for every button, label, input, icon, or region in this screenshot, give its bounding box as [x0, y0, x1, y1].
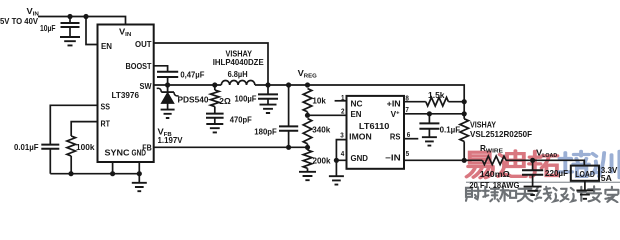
svg-text:SW: SW — [140, 82, 152, 91]
wire input cap to ground — [69, 27, 71, 37]
watermark line2: gray slogan chars — [466, 186, 618, 202]
junction 0.1uF tap — [427, 111, 432, 116]
junction out cap — [265, 82, 270, 87]
junction input cap tap — [67, 14, 72, 19]
wire input rail VIN — [38, 17, 126, 25]
wire FB line — [154, 146, 308, 148]
svg-text:5A: 5A — [601, 174, 612, 183]
ground snubber — [206, 124, 223, 132]
svg-text:EN: EN — [101, 42, 112, 51]
svg-text:LOAD: LOAD — [575, 170, 595, 179]
resistor 2ohm snubber — [211, 90, 220, 107]
capacitor 180pF feedback — [279, 126, 298, 130]
svg-text:0,47µF: 0,47µF — [180, 71, 204, 80]
svg-text:340k: 340k — [312, 125, 330, 134]
capacitor 470pF snubber — [206, 114, 224, 118]
wire out cap to ground — [267, 99, 269, 105]
svg-text:1.5k: 1.5k — [428, 91, 445, 100]
wire 200k to ground — [307, 168, 309, 172]
wire snubber mid lead — [214, 107, 216, 114]
wire RWIRE to load — [506, 160, 584, 165]
wire GND6110 lead — [336, 160, 346, 176]
wire 10k bottom lead — [307, 112, 309, 116]
svg-text:0.1µF: 0.1µF — [440, 126, 461, 135]
junction gnd rail — [137, 171, 142, 176]
wire snubber to ground — [214, 118, 216, 124]
junction diode tap — [165, 82, 170, 87]
ground LT6110 — [329, 176, 344, 184]
svg-text:IHLP4040DZE: IHLP4040DZE — [213, 58, 265, 67]
wire out cap lead — [267, 85, 269, 94]
wire 220uF lead — [532, 160, 534, 170]
svg-text:EN: EN — [351, 110, 362, 119]
wire bottom rail — [50, 173, 139, 175]
svg-text:+IN: +IN — [387, 100, 401, 109]
wire sense bottom lead — [463, 141, 465, 160]
watermark line1: red chars YI DI TUO — [467, 151, 558, 178]
wire GND drop — [138, 162, 140, 183]
capacitor 100uF output — [258, 94, 278, 98]
svg-text:20 FT. 18AWG: 20 FT. 18AWG — [469, 181, 519, 190]
wire SS to cap — [50, 105, 97, 144]
svg-text:RS: RS — [390, 132, 401, 141]
resistor 1.5k — [426, 97, 449, 106]
junction EN tap — [83, 14, 88, 19]
junction 10k tap — [305, 82, 310, 87]
wire IMON lead — [336, 140, 346, 161]
wire load to ground — [584, 181, 586, 191]
capacitor 0.01uF softstart — [41, 145, 59, 149]
wire sense top lead — [463, 102, 465, 119]
wire 0.1uF to ground — [428, 129, 430, 137]
junction 1.5k vreg — [462, 99, 467, 104]
wire 100k to rail — [70, 156, 72, 174]
junction VLOAD — [530, 158, 535, 163]
svg-text:6.8µH: 6.8µH — [228, 70, 248, 79]
watermark line1: blue chars PEI XUN — [559, 151, 619, 177]
wire 220uF to ground — [532, 175, 534, 187]
svg-text:SYNC: SYNC — [105, 149, 130, 158]
wire VREG line — [255, 85, 464, 102]
svg-text:10µF: 10µF — [40, 24, 56, 33]
wire 340k bottom lead — [307, 144, 309, 150]
svg-text:BOOST: BOOST — [126, 62, 152, 71]
svg-text:7: 7 — [405, 105, 409, 114]
svg-text:5: 5 — [406, 149, 410, 158]
junction sync rail — [110, 171, 115, 176]
wire -IN line — [404, 159, 464, 161]
svg-text:FB: FB — [142, 143, 152, 152]
ground 0.1uF — [422, 137, 437, 145]
wire 180pF bottom lead — [288, 131, 290, 148]
resistor 200k — [303, 150, 312, 168]
wire V+ line — [404, 113, 464, 115]
wire RS stub — [404, 138, 418, 140]
junction 100k rail — [68, 171, 73, 176]
wire BOOST lead — [154, 66, 168, 72]
junction sense -IN — [462, 158, 467, 163]
junction 180pF tap — [286, 82, 291, 87]
ground output cap — [260, 105, 277, 113]
svg-text:100µF: 100µF — [235, 95, 257, 104]
resistor 100k RT — [67, 136, 76, 156]
wire SYNC drop — [112, 162, 114, 174]
svg-text:2: 2 — [341, 106, 345, 115]
wire diode to ground — [167, 103, 169, 109]
wire OUT to vreg node — [154, 43, 268, 85]
wire SW line — [154, 84, 222, 86]
svg-text:SS: SS — [101, 103, 111, 112]
svg-text:140mΩ: 140mΩ — [480, 170, 510, 179]
ground diode — [161, 110, 175, 118]
ground divider — [299, 172, 316, 180]
junction divider FB — [305, 145, 310, 150]
svg-text:VISHAY: VISHAY — [470, 120, 496, 129]
ground 220uF — [524, 187, 542, 195]
resistor RWIRE — [482, 156, 506, 165]
svg-text:0.01µF: 0.01µF — [14, 143, 39, 152]
svg-text:470pF: 470pF — [230, 116, 252, 125]
junction snubber tap — [212, 82, 217, 87]
wire NC stub — [335, 100, 347, 102]
wire input cap top lead — [69, 17, 71, 24]
wire RT to resistor — [71, 122, 97, 136]
capacitor 220uF load — [522, 170, 543, 175]
svg-text:VSL2512R0250F: VSL2512R0250F — [470, 130, 532, 139]
wire ss cap to rail — [49, 149, 51, 174]
wire to RWIRE — [464, 159, 482, 161]
ground load — [576, 190, 593, 198]
resistor 340k — [303, 119, 312, 144]
svg-text:2Ω: 2Ω — [219, 97, 231, 106]
svg-text:4: 4 — [341, 149, 345, 158]
ground LT3976 — [132, 183, 147, 191]
svg-text:1.197V: 1.197V — [158, 136, 184, 145]
op-amp U2 LT6110 box — [347, 96, 405, 169]
inductor L1 6.8uH IHLP4040DZE — [221, 81, 255, 86]
svg-text:LT6110: LT6110 — [359, 122, 390, 131]
diode D1 PDS540 schottky — [157, 85, 179, 96]
svg-text:RT: RT — [101, 120, 111, 129]
junction IMON GND — [334, 158, 339, 163]
ground input cap — [60, 37, 80, 45]
wire EN6110 — [308, 114, 347, 116]
svg-text:LT3976: LT3976 — [112, 91, 140, 100]
wire snubber top lead — [214, 85, 216, 90]
svg-text:PDS540: PDS540 — [178, 95, 209, 104]
svg-text:5V TO 40V: 5V TO 40V — [0, 17, 39, 26]
capacitor 10uF input — [61, 23, 80, 27]
svg-text:3: 3 — [340, 130, 344, 139]
svg-text:GND: GND — [351, 154, 369, 163]
svg-text:−IN: −IN — [385, 153, 401, 162]
svg-text:220µF: 220µF — [545, 169, 568, 178]
svg-text:OUT: OUT — [135, 40, 152, 49]
wire 1.5k to node — [448, 101, 464, 103]
wire +IN lead — [404, 101, 426, 103]
svg-text:NC: NC — [351, 100, 363, 109]
capacitor 0.47uF boost — [157, 72, 178, 77]
svg-text:10k: 10k — [312, 96, 326, 105]
svg-text:IMON: IMON — [349, 132, 372, 141]
junction 10k 340k EN — [305, 113, 310, 118]
wire 180pF top lead — [288, 85, 290, 126]
wire EN drop — [86, 17, 98, 45]
junction 180pF FB — [286, 145, 291, 150]
capacitor 0.1uF bypass — [419, 123, 439, 128]
junction V+ sense — [462, 111, 467, 116]
wire 0.1uF lead — [428, 114, 430, 124]
svg-text:180pF: 180pF — [254, 127, 276, 136]
resistor 10k — [303, 89, 312, 112]
svg-text:100k: 100k — [76, 143, 95, 152]
op-amp U1 LT3976 regulator box — [98, 25, 154, 163]
resistor VSL2512 sense — [460, 119, 469, 142]
svg-text:200k: 200k — [313, 156, 331, 165]
wire boost cap to SW — [167, 77, 169, 85]
load box — [571, 166, 599, 181]
watermark underline — [466, 181, 620, 183]
